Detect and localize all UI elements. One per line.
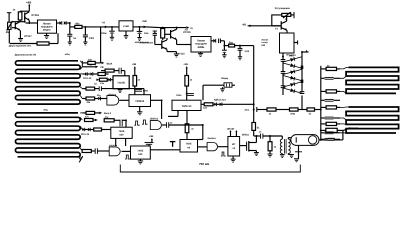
ground xyxy=(46,33,48,35)
svg-text:155ЛА3: 155ЛА3 xyxy=(150,118,159,121)
wire vertical feed xyxy=(100,27,102,63)
capacitor C27 xyxy=(321,139,328,141)
svg-text:74ЛЕ: 74ЛЕ xyxy=(119,130,125,133)
resistor R30 xyxy=(321,106,326,108)
svg-text:общ: общ xyxy=(43,109,48,112)
resistor R23 47k xyxy=(85,119,94,122)
dimension line 750 mm xyxy=(120,171,300,173)
diode VD25 VD26 xyxy=(81,129,83,131)
diode VD14 xyxy=(283,82,302,87)
svg-text:Расстояние: Расстояние xyxy=(140,41,154,44)
capacitor C24 xyxy=(321,117,325,119)
capacitor C7 electrolytic xyxy=(223,46,225,50)
svg-text:0,05: 0,05 xyxy=(245,50,250,53)
svg-text:генер.: генер. xyxy=(262,41,269,44)
photodiode VD1 xyxy=(7,12,11,14)
resistor R14 47k xyxy=(101,70,105,72)
resistor R32 xyxy=(321,129,326,131)
ground xyxy=(254,152,259,154)
wire xyxy=(235,45,254,47)
capacitor C13 xyxy=(118,68,120,74)
capacitor C16 xyxy=(187,93,194,95)
diode VD3a xyxy=(64,21,66,25)
svg-text:КТ361: КТ361 xyxy=(32,14,40,17)
ground xyxy=(125,31,127,36)
IC U10 xyxy=(228,137,240,157)
svg-text:100н: 100н xyxy=(176,94,182,97)
resistor R26 xyxy=(82,150,91,153)
wire xyxy=(298,145,300,158)
node end tap xyxy=(78,156,81,160)
svg-text:Кнопка: Кнопка xyxy=(208,137,217,140)
delay line L3 meander xyxy=(346,67,399,93)
svg-text:КТ315: КТ315 xyxy=(183,31,191,34)
wire xyxy=(211,40,213,42)
capacitor C23 xyxy=(321,99,325,101)
svg-text:64МБ: 64МБ xyxy=(198,46,205,49)
svg-text:+5В: +5В xyxy=(132,63,137,66)
wire xyxy=(342,130,344,140)
wire xyxy=(57,22,60,24)
pulse waveform xyxy=(134,121,139,125)
wire main vertical xyxy=(253,46,255,123)
resistor R4 xyxy=(162,27,164,30)
capacitor C25 xyxy=(321,132,325,134)
capacitor C21 xyxy=(260,134,262,139)
ground xyxy=(139,159,141,161)
diode VD13 xyxy=(283,76,302,81)
diode VD27 xyxy=(107,79,108,81)
wire bottom bus xyxy=(10,43,37,45)
resistor R1 1k xyxy=(18,12,22,20)
resistor R9 51 xyxy=(252,123,256,131)
transistor Q3 xyxy=(170,30,172,39)
capacitor C17 xyxy=(119,120,121,127)
IC U9 xyxy=(180,140,198,153)
wire xyxy=(240,145,246,147)
terminal xyxy=(294,42,298,44)
resistor R7 xyxy=(301,66,304,69)
capacitor C19 xyxy=(94,148,96,154)
wire xyxy=(151,99,162,101)
wire left bus xyxy=(282,53,284,59)
diode VD12 xyxy=(283,69,302,74)
wire pins xyxy=(230,132,232,137)
wire xyxy=(8,29,10,43)
resistor R11 xyxy=(290,108,299,111)
svg-text:ВЧ диод: ВЧ диод xyxy=(287,54,297,57)
delay line L4 meander xyxy=(346,107,399,133)
wire xyxy=(220,40,224,42)
svg-text:Регулировка: Регулировка xyxy=(275,7,291,10)
wire xyxy=(201,103,204,105)
resistor R31 xyxy=(321,123,326,125)
regulator U2 xyxy=(119,21,133,31)
wire xyxy=(66,22,70,24)
wire xyxy=(82,26,119,28)
ground xyxy=(18,38,23,40)
capacitor C4 10u xyxy=(139,27,141,31)
transistor Q4 xyxy=(161,40,163,49)
IC U6 xyxy=(172,100,201,110)
resistor R18 43k xyxy=(82,98,86,100)
capacitor C14 100n xyxy=(135,88,142,90)
IC U7 xyxy=(111,127,132,138)
capacitor C26 xyxy=(321,138,325,140)
wire xyxy=(232,84,235,86)
svg-text:40к: 40к xyxy=(75,23,80,26)
ground xyxy=(222,87,224,89)
wire xyxy=(291,14,294,16)
svg-text:ЦМ ЦП: ЦМ ЦП xyxy=(227,128,235,131)
svg-text:+5В: +5В xyxy=(149,135,154,138)
capacitor C5 xyxy=(153,30,157,32)
svg-text:74ЛЕ 90: 74ЛЕ 90 xyxy=(182,105,192,108)
svg-text:+5В: +5В xyxy=(183,63,188,66)
delay line L1 meander group 1 xyxy=(15,61,80,104)
capacitor C6 xyxy=(218,39,220,44)
wire +5 rail xyxy=(147,26,161,29)
svg-text:ЛЗ: ЛЗ xyxy=(185,28,189,31)
resistor R27 xyxy=(269,136,271,142)
svg-text:Линия: Линия xyxy=(262,38,270,41)
wire xyxy=(115,138,117,146)
pulse waveform xyxy=(142,120,148,124)
diode VD20 VD21 xyxy=(82,73,85,75)
transistor Q5 xyxy=(280,21,282,29)
wire xyxy=(26,22,38,24)
svg-text:629: 629 xyxy=(120,133,125,136)
wire xyxy=(263,135,282,137)
svg-text:Кварц: Кварц xyxy=(221,77,228,80)
svg-text:74АЛБ: 74АЛБ xyxy=(117,81,125,84)
IC U8 VCO xyxy=(131,146,151,159)
resistor R3 40k xyxy=(75,25,82,28)
wire xyxy=(166,49,168,51)
resistor R21 xyxy=(204,103,213,106)
svg-text:видео: видео xyxy=(43,29,51,32)
wire tap bus xyxy=(80,61,82,63)
svg-text:Двухканальная ЛЗ: Двухканальная ЛЗ xyxy=(15,53,37,56)
svg-text:750 мм: 750 мм xyxy=(199,162,210,166)
wire bias loop xyxy=(272,15,282,26)
ground xyxy=(232,156,234,159)
resistor R22 xyxy=(82,112,86,114)
wire xyxy=(20,10,29,12)
resistor R10 xyxy=(267,108,276,111)
ground xyxy=(200,52,202,53)
junction dots xyxy=(69,22,71,24)
wire row A xyxy=(82,62,88,64)
resistor R28 xyxy=(321,68,326,70)
diode VD10 xyxy=(283,57,302,62)
svg-text:РСА-15: РСА-15 xyxy=(81,133,90,136)
wire xyxy=(176,40,178,45)
svg-text:100м: 100м xyxy=(101,32,107,35)
capacitor C12 xyxy=(300,91,305,93)
resistor R29 xyxy=(321,90,326,92)
capacitor C18 xyxy=(166,122,168,128)
svg-text:КТ317: КТ317 xyxy=(24,35,32,38)
diode VD2 xyxy=(60,21,62,25)
capacitor C1 xyxy=(69,27,71,34)
tube V1 xyxy=(291,135,319,146)
capacitor C20 xyxy=(145,142,154,144)
ground xyxy=(119,88,121,91)
arrow in xyxy=(96,78,99,81)
svg-text:+9В: +9В xyxy=(26,1,31,5)
wire xyxy=(198,146,208,148)
wire xyxy=(315,109,321,111)
capacitor C11 xyxy=(281,85,286,87)
svg-text:Вых.2: Вых.2 xyxy=(104,112,112,115)
diode VD11 xyxy=(283,63,302,68)
resistor R8 xyxy=(301,80,304,83)
resistor R19 xyxy=(185,76,189,87)
svg-text:1н: 1н xyxy=(73,37,76,40)
resistor R24 xyxy=(90,129,93,131)
resistor R13 43k xyxy=(88,61,95,64)
svg-text:74ЛЕ13: 74ЛЕ13 xyxy=(135,100,145,103)
transistor Q2 KT317 xyxy=(14,22,16,29)
resistor R33 1.8k xyxy=(98,79,101,81)
capacitor C10 xyxy=(281,71,286,73)
wire tap bus xyxy=(320,66,322,140)
arrow out xyxy=(101,62,104,65)
transistor Q1 KT361 xyxy=(24,13,26,20)
svg-text:РВ: РВ xyxy=(100,66,104,69)
ground xyxy=(174,53,179,55)
ground xyxy=(139,107,141,112)
wire xyxy=(202,85,204,100)
potentiometer R6 xyxy=(282,13,291,16)
svg-text:+5В: +5В xyxy=(142,20,147,23)
svg-text:КП501: КП501 xyxy=(242,134,250,137)
svg-text:Двухсторонняя печ.: Двухсторонняя печ. xyxy=(9,44,32,47)
resistor R16 1k xyxy=(133,76,137,87)
wire xyxy=(276,109,290,111)
wire xyxy=(150,149,180,151)
node +5V xyxy=(186,26,189,29)
IC U5 xyxy=(129,95,151,107)
resistor R2 xyxy=(37,42,49,45)
wire top terminal xyxy=(302,51,309,53)
resistor R20 1k xyxy=(186,111,188,124)
wire xyxy=(169,124,203,126)
svg-text:10м: 10м xyxy=(144,32,149,35)
capacitor C15 xyxy=(98,86,100,91)
ground xyxy=(268,153,273,155)
delay module U1 xyxy=(38,20,57,33)
svg-text:общ: общ xyxy=(65,53,70,56)
IC U11 xyxy=(113,76,129,89)
svg-text:+9: +9 xyxy=(102,22,106,25)
wire right bus xyxy=(301,52,303,92)
wire links xyxy=(340,67,349,69)
capacitor C3 100u xyxy=(111,27,113,31)
wire xyxy=(177,111,179,117)
svg-text:СЗО: СЗО xyxy=(89,37,94,40)
delay line L2 meander group 2 xyxy=(15,113,80,157)
wire xyxy=(254,135,261,137)
resistor R5 56k xyxy=(229,44,235,47)
svg-text:100к: 100к xyxy=(290,113,296,116)
svg-text:74ЛЕ: 74ЛЕ xyxy=(137,150,143,153)
svg-text:РСА-15: РСА-15 xyxy=(83,77,92,80)
capacitor C2 xyxy=(84,27,86,35)
pulse waveform xyxy=(125,155,130,159)
svg-text:КД514 2шт: КД514 2шт xyxy=(214,99,227,102)
generator box U4 xyxy=(280,33,295,53)
capacitor C9 xyxy=(281,59,286,61)
ground xyxy=(294,158,299,160)
svg-text:74ЛЕ: 74ЛЕ xyxy=(186,143,192,146)
capacitor C22 xyxy=(321,77,325,79)
wire xyxy=(28,20,30,23)
wire xyxy=(286,30,288,33)
arrow out xyxy=(99,112,102,115)
svg-text:ИС: ИС xyxy=(232,143,236,146)
capacitor C8 xyxy=(239,46,241,49)
arrow out xyxy=(343,128,350,130)
test point T xyxy=(170,141,176,143)
wire xyxy=(257,109,267,111)
svg-text:стаб: стаб xyxy=(123,25,129,28)
wire xyxy=(133,26,147,28)
wire xyxy=(19,21,21,23)
resistor R12 xyxy=(307,108,315,111)
pulse waveform xyxy=(221,152,226,156)
diode VD3 xyxy=(213,39,215,43)
ground xyxy=(289,154,294,156)
svg-text:-9В: -9В xyxy=(242,23,246,26)
svg-text:629: 629 xyxy=(138,153,143,156)
resistor R15 xyxy=(93,73,98,75)
diode VD15 xyxy=(283,88,302,93)
svg-text:Р.Б: Р.Б xyxy=(89,63,93,66)
svg-text:вых: вых xyxy=(245,109,250,112)
transformer T1 xyxy=(281,136,283,139)
resistor R17 xyxy=(82,88,86,90)
svg-text:ВЫХ: ВЫХ xyxy=(107,62,113,65)
wire xyxy=(298,109,307,111)
